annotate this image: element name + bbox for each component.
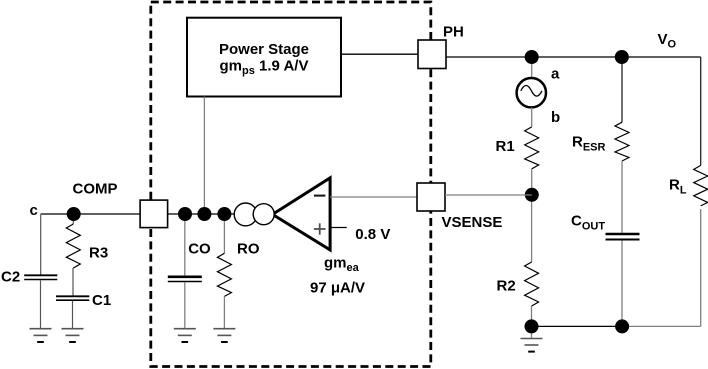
wire COMP node to R3 <box>72 214 74 224</box>
wire R2 node to ground <box>531 326 533 338</box>
op-amp minus input mark <box>314 195 325 197</box>
wire COMP pad to op-amp output node <box>168 213 235 215</box>
node dot divider junction <box>525 188 539 202</box>
wire C2 to ground <box>40 281 42 329</box>
node dot CO branch <box>178 207 192 221</box>
wire C1 to ground <box>72 301 74 329</box>
ground under C1 <box>62 329 84 342</box>
pin pad VSENSE <box>417 183 445 211</box>
wire divider node to R2 <box>531 195 533 262</box>
power stage block U1 <box>187 18 341 97</box>
svg-text:R3: R3 <box>89 245 108 262</box>
ground under RO <box>213 329 235 342</box>
wire PH to Vo corner (top bus) <box>446 56 701 58</box>
wire COUT to bottom bus <box>621 241 623 327</box>
wire AC source to R1 <box>531 108 533 127</box>
node dot bottom bus left <box>525 319 539 333</box>
wire c corner to COMP pad <box>41 213 140 215</box>
wire R2 to bottom bus <box>531 306 533 326</box>
wire VSENSE pad to divider junction <box>445 194 532 196</box>
svg-text:b: b <box>551 109 560 126</box>
wire RL bottom to bottom bus <box>700 209 702 326</box>
node dot power stage branch <box>197 207 211 221</box>
current source circles at op-amp output <box>234 203 257 226</box>
ground under C2 <box>30 329 52 342</box>
wire c corner down to C2 <box>40 214 42 275</box>
wire node up to power stage <box>203 97 205 215</box>
capacitor C1 <box>56 296 89 300</box>
op-amp plus input mark <box>314 223 326 234</box>
svg-text:PH: PH <box>443 24 464 41</box>
op-amp U2 (transconductance error amp) <box>273 178 331 250</box>
node dot RO branch <box>217 207 231 221</box>
bottom bus wire right (Cout node to RL) <box>622 325 701 327</box>
wire bus to AC source <box>531 57 533 79</box>
capacitor C2 <box>24 275 57 279</box>
ground under R2 <box>521 339 543 352</box>
wire CO to ground <box>184 283 186 329</box>
svg-text:97 μA/V: 97 μA/V <box>310 280 365 297</box>
resistor RESR <box>615 122 629 161</box>
wire plus input to 0.8V <box>330 227 347 229</box>
wire Vo corner down to RL <box>700 57 702 165</box>
node dot top bus right <box>615 50 629 64</box>
node dot bottom bus right <box>615 319 629 333</box>
svg-text:COMP: COMP <box>73 181 118 198</box>
pin pad COMP <box>140 200 168 228</box>
node dot top bus left <box>525 50 539 64</box>
svg-text:a: a <box>551 65 560 82</box>
wire minus input to VSENSE pad <box>330 196 417 198</box>
capacitor COUT <box>606 234 640 240</box>
capacitor CO <box>168 277 202 282</box>
svg-text:VSENSE: VSENSE <box>442 214 503 231</box>
resistor RL <box>694 165 708 206</box>
ground under CO <box>174 329 196 342</box>
svg-text:c: c <box>30 202 38 219</box>
wire RESR to COUT <box>621 161 623 233</box>
node dot COMP <box>67 207 81 221</box>
svg-text:0.8 V: 0.8 V <box>355 226 390 243</box>
dashed IC boundary box <box>151 2 431 367</box>
wire R3 to C1 <box>72 268 74 296</box>
wire VO node to RESR <box>621 57 623 122</box>
svg-text:R2: R2 <box>497 278 516 295</box>
svg-text:gmps 1.9 A/V: gmps 1.9 A/V <box>220 58 309 78</box>
svg-text:CO: CO <box>188 241 211 258</box>
resistor R1 <box>525 127 539 169</box>
svg-text:C1: C1 <box>92 292 111 309</box>
svg-text:Power Stage: Power Stage <box>219 41 309 58</box>
wire node down to RO <box>223 214 225 253</box>
resistor RO <box>217 253 231 296</box>
resistor R3 <box>66 224 80 268</box>
wire R1 to divider node <box>531 169 533 195</box>
pin pad PH <box>418 40 446 69</box>
wire RO to ground <box>223 296 225 328</box>
AC source V1 <box>517 78 546 107</box>
bottom bus wire left (R2 node to Cout node) <box>532 325 623 327</box>
svg-text:C2: C2 <box>1 269 20 286</box>
svg-text:R1: R1 <box>496 138 515 155</box>
resistor R2 <box>525 262 539 306</box>
wire node down to CO <box>184 214 186 276</box>
svg-text:RO: RO <box>237 241 260 258</box>
wire power stage to PH <box>341 53 418 55</box>
